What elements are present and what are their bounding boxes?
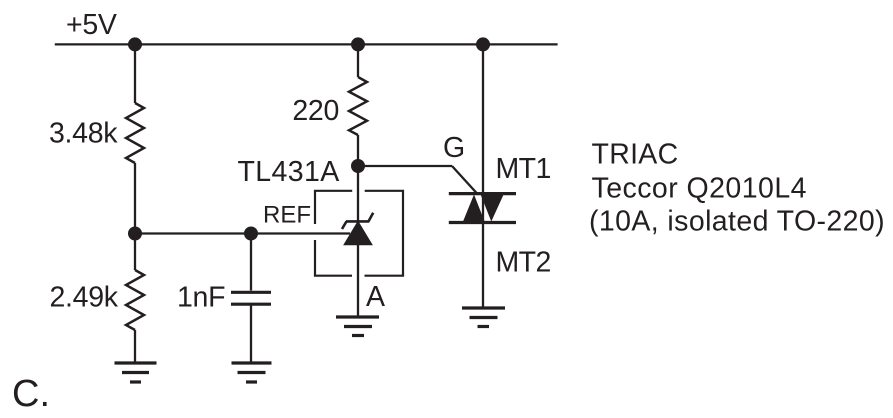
node: capacitor junction	[244, 227, 258, 241]
triac Q1	[449, 194, 516, 223]
svg-text:MT1: MT1	[496, 153, 551, 185]
wire cap node to C 1nF	[250, 234, 252, 291]
node: divider junction	[128, 227, 142, 241]
wire C 1nF to ground	[250, 306, 252, 364]
svg-text:3.48k: 3.48k	[49, 118, 118, 150]
svg-text:C.: C.	[12, 373, 50, 415]
wire R 3.48k to divider node	[134, 163, 136, 234]
resistor 220	[349, 77, 367, 135]
wire R 2.49k to ground	[134, 330, 136, 363]
svg-text:2.49k: 2.49k	[50, 282, 119, 314]
node: rail / R 3.48k junction	[128, 37, 142, 51]
wire R 220 to cathode node	[357, 135, 359, 222]
label MT2	[496, 246, 551, 278]
wire REF net (divider to TL431A REF)	[135, 232, 350, 234]
label C. (figure letter)	[12, 373, 50, 415]
svg-text:TRIAC: TRIAC	[592, 139, 679, 171]
+5V label	[66, 9, 117, 41]
svg-text:G: G	[443, 132, 465, 164]
wire gate net	[358, 166, 478, 194]
wire rail to R 220	[357, 44, 359, 77]
svg-text:MT2: MT2	[496, 246, 551, 278]
wire anode to ground	[357, 244, 359, 317]
node: rail / R 220 junction	[351, 37, 365, 51]
label 1nF	[177, 282, 225, 314]
ground (below R 2.49k)	[115, 363, 157, 382]
svg-text:220: 220	[292, 95, 339, 127]
label MT1	[496, 153, 551, 185]
node: cathode / gate junction	[351, 159, 365, 173]
ground (below TL431A)	[336, 317, 379, 336]
shunt regulator U1 TL431A zener symbol	[342, 213, 373, 245]
label 2.49k	[50, 282, 119, 314]
wire divider node to R 2.49k	[134, 234, 136, 271]
shunt regulator U1 TL431A body box	[315, 191, 403, 276]
node: rail / triac junction	[476, 37, 490, 51]
label TRIAC note line 3	[589, 205, 885, 237]
svg-text:(10A, isolated TO-220): (10A, isolated TO-220)	[589, 205, 885, 237]
label 220	[292, 95, 339, 127]
label REF	[263, 202, 311, 229]
svg-text:A: A	[366, 281, 385, 313]
svg-text:+5V: +5V	[66, 9, 117, 41]
svg-text:1nF: 1nF	[177, 282, 225, 314]
label TL431A	[238, 156, 340, 188]
svg-text:Teccor Q2010L4: Teccor Q2010L4	[592, 173, 807, 205]
label G	[443, 132, 465, 164]
ground (below C 1nF)	[232, 363, 272, 382]
resistor 3.48k	[126, 103, 144, 163]
svg-text:REF: REF	[263, 202, 311, 229]
capacitor C 1nF	[231, 292, 271, 304]
resistor 2.49k	[126, 270, 144, 330]
label TRIAC note line 2	[592, 173, 807, 205]
ground (below triac)	[462, 308, 505, 327]
label TRIAC note line 1	[592, 139, 679, 171]
label 3.48k	[49, 118, 118, 150]
wire rail to triac MT1 and MT2 to ground	[482, 44, 484, 308]
wire rail to R 3.48k	[134, 44, 136, 103]
label A (anode)	[366, 281, 385, 313]
svg-text:TL431A: TL431A	[238, 156, 340, 188]
+5V rail wire	[55, 43, 558, 45]
